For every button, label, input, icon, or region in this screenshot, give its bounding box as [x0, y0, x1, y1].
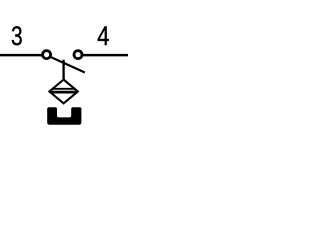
switch arm (NO contact): [49, 56, 85, 72]
wire terminal 4: [83, 54, 128, 57]
contact circle right (terminal 4): [74, 51, 82, 59]
background: [0, 0, 128, 128]
wire terminal 3: [0, 54, 42, 57]
capacitor plate thin: [52, 88, 75, 90]
horseshoe magnet: [47, 107, 81, 125]
svg-text:3: 3: [11, 22, 23, 52]
actuator stem: [62, 60, 64, 80]
contact circle left (terminal 3): [43, 51, 51, 59]
capacitor plate thick: [50, 91, 78, 94]
svg-text:4: 4: [97, 22, 109, 52]
proximity sensor diamond: [49, 80, 77, 104]
